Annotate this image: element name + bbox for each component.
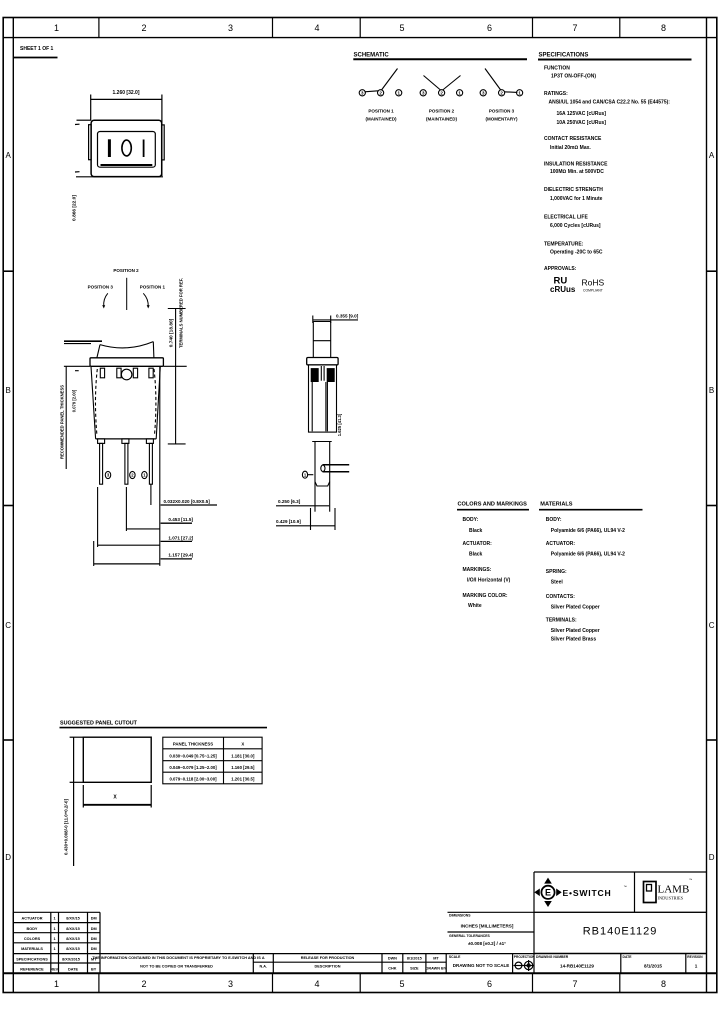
svg-text:ELECTRICAL LIFE: ELECTRICAL LIFE xyxy=(544,215,588,221)
cutout left ext top xyxy=(70,736,84,738)
svg-text:0.429 [10.9]: 0.429 [10.9] xyxy=(276,519,301,524)
svg-text:0.430+0.008/-0 [11.0+0.2/-0]: 0.430+0.008/-0 [11.0+0.2/-0] xyxy=(64,799,69,855)
svg-text:7: 7 xyxy=(572,979,577,989)
pivot circle xyxy=(121,369,132,380)
right side wing xyxy=(162,125,165,160)
cutout dim X ext right xyxy=(150,785,152,808)
svg-text:Silver Plated Copper: Silver Plated Copper xyxy=(551,605,600,611)
rocker side left xyxy=(312,322,314,358)
terminal blade 1 xyxy=(100,443,103,484)
svg-text:RoHS: RoHS xyxy=(582,278,605,288)
inner line left xyxy=(311,382,313,431)
svg-text:POSITION 3: POSITION 3 xyxy=(88,285,114,290)
inner line mid1 xyxy=(325,382,327,431)
lamb logo icon xyxy=(644,882,657,903)
switch bezel outline xyxy=(91,120,162,176)
svg-text:4: 4 xyxy=(314,979,319,989)
svg-text:8/1/2015: 8/1/2015 xyxy=(644,964,662,969)
svg-text:3: 3 xyxy=(228,979,233,989)
svg-text:1: 1 xyxy=(54,927,56,931)
svg-text:ACTUATOR: ACTUATOR xyxy=(22,917,43,921)
black cavity left xyxy=(311,368,319,382)
rocker side mid line xyxy=(313,340,330,342)
schematic position1 terminal 1 xyxy=(396,90,402,96)
revision table texts xyxy=(16,917,97,972)
svg-text:MT: MT xyxy=(433,957,439,961)
svg-text:ACTUATOR:: ACTUATOR: xyxy=(546,541,576,547)
svg-text:1: 1 xyxy=(54,23,59,33)
schematic position1 terminal 2 xyxy=(378,90,384,96)
svg-text:1.181 [30.0]: 1.181 [30.0] xyxy=(231,753,255,758)
rocker side top xyxy=(313,321,330,323)
dimensions box divider xyxy=(448,931,535,933)
cutout rectangle xyxy=(83,737,151,782)
dim 0.355 ext left xyxy=(312,316,314,324)
svg-text:DRAWING NOT TO SCALE: DRAWING NOT TO SCALE xyxy=(453,963,509,968)
schematic position3 contact link xyxy=(504,91,517,94)
svg-text:MATERIALS: MATERIALS xyxy=(540,502,572,508)
svg-text:8/XX/15: 8/XX/15 xyxy=(66,917,80,921)
panel surface line xyxy=(64,340,102,342)
body right side xyxy=(156,366,160,439)
tick bottom xyxy=(75,171,80,173)
svg-text:INCHES [MILLIMETERS]: INCHES [MILLIMETERS] xyxy=(461,923,514,928)
schematic position3 lever xyxy=(485,69,501,91)
svg-text:0.250 [6.3]: 0.250 [6.3] xyxy=(278,499,301,504)
svg-text:SHEET 1 OF 1: SHEET 1 OF 1 xyxy=(20,46,54,52)
svg-text:Polyamide 6/6 (PA66), UL94 V-2: Polyamide 6/6 (PA66), UL94 V-2 xyxy=(551,528,625,534)
dim 0.740 ext bottom xyxy=(168,443,186,445)
slot 1 xyxy=(100,368,104,378)
svg-text:D: D xyxy=(5,853,11,862)
svg-text:RB140E1129: RB140E1129 xyxy=(583,926,658,938)
schematic captions xyxy=(366,109,518,122)
right wing dashed xyxy=(154,369,156,436)
schematic position1 lever xyxy=(382,69,398,91)
svg-text:1P3T ON-OFF-(ON): 1P3T ON-OFF-(ON) xyxy=(551,74,596,80)
svg-text:2: 2 xyxy=(141,979,146,989)
svg-text:COLORS AND MARKINGS: COLORS AND MARKINGS xyxy=(458,502,528,508)
svg-text:PANEL THICKNESS: PANEL THICKNESS xyxy=(173,742,213,747)
svg-text:8: 8 xyxy=(661,23,666,33)
dim 1.260 line xyxy=(91,98,162,100)
svg-text:5: 5 xyxy=(399,979,404,989)
dim 1.071 line xyxy=(98,544,160,546)
svg-text:™: ™ xyxy=(624,885,627,889)
svg-text:POSITION 2: POSITION 2 xyxy=(429,109,455,114)
svg-text:8/1/2015: 8/1/2015 xyxy=(407,957,422,961)
right block bottom row top xyxy=(534,952,707,954)
svg-text:5: 5 xyxy=(399,23,404,33)
lower block right xyxy=(329,442,331,512)
svg-text:B: B xyxy=(6,386,11,395)
svg-text:DATE: DATE xyxy=(68,968,79,972)
schematic position2 lever right xyxy=(443,76,461,91)
schematic position2 lever left xyxy=(424,76,441,91)
schematic position2 terminal 1 xyxy=(457,90,463,96)
svg-text:6: 6 xyxy=(487,23,492,33)
svg-text:8/XX/15: 8/XX/15 xyxy=(66,927,80,931)
svg-text:FUNCTION: FUNCTION xyxy=(544,66,570,72)
svg-text:1.157 [29.4]: 1.157 [29.4] xyxy=(168,553,193,558)
svg-text:100MΩ Min. at 500VDC: 100MΩ Min. at 500VDC xyxy=(550,169,604,175)
title block big vertical xyxy=(533,872,535,973)
svg-text:TEMPERATURE:: TEMPERATURE: xyxy=(544,242,584,248)
svg-text:1: 1 xyxy=(54,979,59,989)
svg-text:SPECIFICATIONS: SPECIFICATIONS xyxy=(539,53,589,59)
svg-text:7: 7 xyxy=(572,23,577,33)
svg-text:POSITION 1: POSITION 1 xyxy=(140,285,166,290)
column numbers header xyxy=(54,23,666,33)
svg-text:0.866 [22.0]: 0.866 [22.0] xyxy=(72,195,78,221)
svg-text:6: 6 xyxy=(487,979,492,989)
svg-text:Operating -20C to 65C: Operating -20C to 65C xyxy=(550,250,603,256)
logo box top xyxy=(534,871,707,873)
svg-text:DIELECTRIC STRENGTH: DIELECTRIC STRENGTH xyxy=(544,187,603,193)
body bottom xyxy=(96,438,157,440)
svg-text:E: E xyxy=(545,888,551,898)
svg-text:DATE: DATE xyxy=(623,955,633,959)
dim 0.453 ext xyxy=(125,487,127,531)
header dividers xyxy=(98,18,100,38)
svg-text:8: 8 xyxy=(661,979,666,989)
svg-text:CONTACTS:: CONTACTS: xyxy=(546,594,575,600)
svg-text:DM: DM xyxy=(91,937,97,941)
latch trapezoid xyxy=(315,482,330,486)
svg-text:PROJECTION: PROJECTION xyxy=(514,955,535,959)
terminal blade 3 xyxy=(149,443,152,484)
svg-text:SUGGESTED PANEL CUTOUT: SUGGESTED PANEL CUTOUT xyxy=(60,721,138,727)
ext line left at flange bottom xyxy=(64,365,90,367)
svg-text:POSITION 3: POSITION 3 xyxy=(489,109,515,114)
schematic position3 terminal 2 xyxy=(499,90,505,96)
dimensions box top xyxy=(448,911,707,913)
svg-text:SPRING:: SPRING: xyxy=(546,569,567,575)
dim 0.453 underline xyxy=(161,522,192,524)
svg-text:DESCRIPTION: DESCRIPTION xyxy=(315,965,341,969)
border frame inner vertical right xyxy=(706,18,708,993)
rocker left edge xyxy=(97,345,100,358)
svg-text:DM: DM xyxy=(91,947,97,951)
terminal number digits xyxy=(107,473,146,478)
middle slot lines xyxy=(320,366,322,381)
logo divider xyxy=(634,872,636,912)
svg-text:(MAINTAINED): (MAINTAINED) xyxy=(426,117,457,122)
left long ext line xyxy=(65,367,67,470)
side terminal leader xyxy=(308,474,314,476)
svg-text:2: 2 xyxy=(141,23,146,33)
rocker right edge xyxy=(152,342,155,358)
body left side xyxy=(91,366,96,439)
position3 arrowhead xyxy=(102,305,105,308)
position1 arrow arc xyxy=(143,293,148,306)
ext 0.429 right xyxy=(334,508,336,530)
svg-text:0.453 [11.5]: 0.453 [11.5] xyxy=(168,517,193,522)
dim 1.157 ext xyxy=(93,541,95,566)
title block top line xyxy=(13,953,706,955)
svg-text:POSITION 1: POSITION 1 xyxy=(368,109,394,114)
marking I left xyxy=(108,139,111,157)
schematic position2 terminal 3 xyxy=(420,90,426,96)
svg-text:Silver Plated Copper: Silver Plated Copper xyxy=(551,628,600,634)
svg-text:TERMINALS:: TERMINALS: xyxy=(546,618,577,624)
terminal blade 2 xyxy=(125,443,128,484)
projection symbol xyxy=(514,960,535,971)
small tick xyxy=(75,370,79,372)
svg-text:1: 1 xyxy=(54,947,56,951)
svg-text:Steel: Steel xyxy=(551,580,564,586)
svg-text:0.355 [9.0]: 0.355 [9.0] xyxy=(336,314,359,319)
position3 arrow arc xyxy=(104,293,108,306)
side terminal circle xyxy=(302,471,307,478)
revision table rows xyxy=(13,922,100,924)
marking O xyxy=(122,140,131,156)
slot 3 xyxy=(133,368,137,378)
svg-text:SCALE: SCALE xyxy=(449,955,461,959)
svg-text:1: 1 xyxy=(54,917,56,921)
terminal foot 3 xyxy=(146,439,153,444)
cutout dim X ext left xyxy=(82,785,84,808)
svg-text:REFERENCE: REFERENCE xyxy=(20,968,44,972)
dim 0.740 vertical line xyxy=(175,309,177,444)
svg-text:B: B xyxy=(709,386,714,395)
svg-text:1: 1 xyxy=(695,964,698,969)
svg-text:C: C xyxy=(5,621,11,630)
slot 4 xyxy=(149,368,153,378)
part number box divider xyxy=(534,911,707,913)
eswitch logo icon xyxy=(534,878,561,907)
left side wing xyxy=(89,125,92,160)
svg-text:REV.: REV. xyxy=(50,968,59,972)
svg-text:MATERIALS: MATERIALS xyxy=(21,947,43,951)
row letters xyxy=(5,151,715,862)
svg-text:REVISION: REVISION xyxy=(687,955,703,959)
svg-text:DRAWING NUMBER: DRAWING NUMBER xyxy=(536,955,569,959)
svg-text:1.201 [30.5]: 1.201 [30.5] xyxy=(231,777,255,782)
svg-text:White: White xyxy=(468,603,482,609)
rocker bottom edge xyxy=(101,164,153,166)
svg-text:8/XX/15: 8/XX/15 xyxy=(66,947,80,951)
svg-text:cRUus: cRUus xyxy=(550,285,576,294)
cutout dim X line xyxy=(83,804,151,806)
slot 2 xyxy=(117,368,121,378)
lower step line xyxy=(312,441,332,443)
svg-text:BODY:: BODY: xyxy=(546,517,562,523)
dim 0.355 ext right xyxy=(330,316,332,324)
position1 arrowhead xyxy=(147,305,150,308)
dim 1.071 ext xyxy=(97,487,99,547)
schematic position3 terminal 1 xyxy=(517,90,523,96)
schematic position1 terminal 3 xyxy=(359,90,365,96)
right block verticals xyxy=(620,953,622,973)
svg-text:0.049~0.079 [1.25~2.00]: 0.049~0.079 [1.25~2.00] xyxy=(169,765,217,770)
svg-text:8/XX/2015: 8/XX/2015 xyxy=(62,958,80,962)
schematic position1 contact link xyxy=(365,91,379,92)
dim 1.260 ext left xyxy=(90,95,92,121)
svg-text:RELEASE FOR PRODUCTION: RELEASE FOR PRODUCTION xyxy=(301,956,355,960)
svg-text:A: A xyxy=(709,151,715,160)
bottom strip mid dividers xyxy=(253,961,446,963)
svg-text:DWN: DWN xyxy=(388,957,397,961)
flange side xyxy=(307,358,338,365)
svg-text:NOT TO BE COPIED OR TRANSFERRE: NOT TO BE COPIED OR TRANSFERRED xyxy=(140,965,213,969)
svg-text:Black: Black xyxy=(469,528,483,534)
svg-text:THE INFORMATION CONTAINED IN T: THE INFORMATION CONTAINED IN THIS DOCUME… xyxy=(92,956,261,960)
body side outline xyxy=(309,365,337,432)
rocker opening xyxy=(98,132,156,168)
svg-text:SIZE: SIZE xyxy=(410,967,419,971)
border frame inner vertical left xyxy=(12,18,14,993)
svg-text:D: D xyxy=(709,853,715,862)
panel thickness table xyxy=(163,737,262,784)
dim 0.740 ext top xyxy=(168,308,186,310)
svg-text:™: ™ xyxy=(689,878,692,882)
footer dividers xyxy=(98,973,100,992)
svg-text:ACTUATOR:: ACTUATOR: xyxy=(463,541,493,547)
svg-text:1.160 [29.5]: 1.160 [29.5] xyxy=(231,765,255,770)
svg-text:TERMINALS NUMBERED FOR REF.: TERMINALS NUMBERED FOR REF. xyxy=(179,278,184,348)
column numbers footer xyxy=(54,979,666,989)
svg-text:A: A xyxy=(6,151,12,160)
terminal hole xyxy=(321,465,325,471)
dim 1.157 line xyxy=(94,563,160,565)
approval logo cURus xyxy=(550,276,576,294)
dim 0.355 line xyxy=(313,319,358,321)
rocker top curve xyxy=(100,342,153,348)
svg-text:SCHEMATIC: SCHEMATIC xyxy=(354,53,390,59)
svg-text:X: X xyxy=(241,742,244,747)
svg-text:MARKINGS:: MARKINGS: xyxy=(463,567,492,573)
black cavity right xyxy=(327,368,335,382)
inner line mid2 xyxy=(326,382,328,431)
svg-text:CHK: CHK xyxy=(388,967,396,971)
svg-text:N.A.: N.A. xyxy=(259,965,267,969)
svg-text:INSULATION RESISTANCE: INSULATION RESISTANCE xyxy=(544,162,608,168)
svg-text:0.079~0.118 [2.00~3.00]: 0.079~0.118 [2.00~3.00] xyxy=(169,777,217,782)
position2 center line xyxy=(126,278,128,310)
svg-text:0.079 [2.00]: 0.079 [2.00] xyxy=(72,389,77,412)
svg-text:1.071 [27.2]: 1.071 [27.2] xyxy=(168,535,193,540)
ext 0.429 left xyxy=(310,508,312,530)
svg-text:COMPLIANT: COMPLIANT xyxy=(583,288,603,292)
svg-text:CONTACT RESISTANCE: CONTACT RESISTANCE xyxy=(544,136,602,142)
svg-text:16A 125VAC [cURus]: 16A 125VAC [cURus] xyxy=(557,111,607,117)
svg-text:DRAWN BY: DRAWN BY xyxy=(426,967,447,971)
svg-text:0.030~0.049 [0.75~1.25]: 0.030~0.049 [0.75~1.25] xyxy=(169,753,217,758)
revision table top xyxy=(13,911,100,913)
svg-text:Black: Black xyxy=(469,552,483,558)
svg-text:±0.008 [±0.2] / ±1°: ±0.008 [±0.2] / ±1° xyxy=(468,941,506,946)
marking I right xyxy=(143,140,145,158)
proprietary note xyxy=(92,956,447,971)
svg-text:C: C xyxy=(709,621,715,630)
bottom ext line xyxy=(76,176,163,178)
svg-text:0.740 [18.80]: 0.740 [18.80] xyxy=(169,318,175,347)
left wing dashed xyxy=(95,369,97,436)
tick top xyxy=(75,123,80,125)
cutout vertical dim line xyxy=(73,737,75,866)
svg-text:APPROVALS:: APPROVALS: xyxy=(544,266,577,272)
svg-text:INDUSTRIES: INDUSTRIES xyxy=(658,896,684,901)
svg-text:COLORS: COLORS xyxy=(24,937,41,941)
terminal foot 1 xyxy=(98,439,105,444)
quickconnect tab bottom xyxy=(323,471,350,473)
svg-text:POSITION 2: POSITION 2 xyxy=(113,268,139,273)
terminal number circle 1 xyxy=(142,471,147,478)
svg-text:Polyamide 6/6 (PA66), UL94 V-2: Polyamide 6/6 (PA66), UL94 V-2 xyxy=(551,552,625,558)
terminal number circle 3 xyxy=(105,471,110,478)
svg-text:Silver Plated Brass: Silver Plated Brass xyxy=(551,637,597,643)
svg-text:RECOMMENDED PANEL THICKNESS: RECOMMENDED PANEL THICKNESS xyxy=(59,385,64,459)
svg-text:LAMB: LAMB xyxy=(658,884,690,896)
svg-text:I/O/I Horizontal (V): I/O/I Horizontal (V) xyxy=(467,578,511,584)
panel surface line 2 xyxy=(64,343,91,345)
schematic position3 terminal 3 xyxy=(480,90,486,96)
svg-text:6,000 Cycles [cURus]: 6,000 Cycles [cURus] xyxy=(550,223,601,229)
svg-text:4: 4 xyxy=(314,23,319,33)
svg-text:GENERAL TOLERANCES: GENERAL TOLERANCES xyxy=(449,934,490,938)
bottom strip verticals xyxy=(252,954,254,974)
header strip bottom line xyxy=(3,37,717,39)
svg-text:(MAINTAINED): (MAINTAINED) xyxy=(366,117,397,122)
dim 0.032 underline xyxy=(161,504,217,506)
svg-text:1.260 [32.0]: 1.260 [32.0] xyxy=(113,90,140,96)
dim 1.260 ext right xyxy=(161,95,163,177)
leader blade3 xyxy=(150,484,152,505)
row ticks right xyxy=(707,270,717,272)
quickconnect tab top xyxy=(323,464,350,466)
dim 1.157 underline xyxy=(161,558,192,560)
revision table verticals xyxy=(12,912,14,973)
terminal number circle 2 xyxy=(130,471,135,478)
svg-text:A: A xyxy=(262,956,265,960)
svg-text:8/XX/15: 8/XX/15 xyxy=(66,937,80,941)
ext line right at flange bottom xyxy=(163,365,186,367)
vertical reference line xyxy=(159,366,161,566)
svg-text:DM: DM xyxy=(91,917,97,921)
svg-text:10A 250VAC [cURus]: 10A 250VAC [cURus] xyxy=(557,120,607,126)
cutout left ext bottom tick xyxy=(70,781,84,783)
row ticks left xyxy=(3,270,13,272)
svg-text:MARKING COLOR:: MARKING COLOR: xyxy=(463,593,508,599)
svg-text:BY: BY xyxy=(91,968,97,972)
lower block left xyxy=(314,442,316,512)
svg-text:ANSI/UL 1054 and CAN/CSA C22.2: ANSI/UL 1054 and CAN/CSA C22.2 No. 55 (E… xyxy=(549,100,671,106)
svg-text:RATINGS:: RATINGS: xyxy=(544,91,568,97)
svg-text:BODY: BODY xyxy=(27,927,38,931)
svg-text:14-RB140E1129: 14-RB140E1129 xyxy=(560,964,594,969)
svg-text:E•SWITCH: E•SWITCH xyxy=(563,888,612,898)
svg-text:3: 3 xyxy=(228,23,233,33)
schematic position2 terminal 2 xyxy=(439,90,445,96)
svg-text:BODY:: BODY: xyxy=(463,517,479,523)
rocker side right xyxy=(330,322,332,358)
dim texts stack xyxy=(164,499,211,558)
top ext line to left xyxy=(77,119,92,121)
svg-text:(MOMENTARY): (MOMENTARY) xyxy=(486,117,518,122)
svg-text:1.625 [41.3]: 1.625 [41.3] xyxy=(337,413,342,436)
flange xyxy=(90,358,163,367)
svg-text:DIMENSIONS: DIMENSIONS xyxy=(449,914,471,918)
dim 0.453 line xyxy=(126,528,159,530)
svg-text:DM: DM xyxy=(91,927,97,931)
schematic terminal numbers xyxy=(361,91,521,96)
svg-text:Initial 20mΩ Max.: Initial 20mΩ Max. xyxy=(550,145,591,151)
dim 0.429 line xyxy=(276,525,335,527)
svg-text:1,000VAC for 1 Minute: 1,000VAC for 1 Minute xyxy=(550,196,603,202)
svg-text:SPECIFICATIONS: SPECIFICATIONS xyxy=(16,958,48,962)
terminal foot 2 xyxy=(122,439,129,444)
